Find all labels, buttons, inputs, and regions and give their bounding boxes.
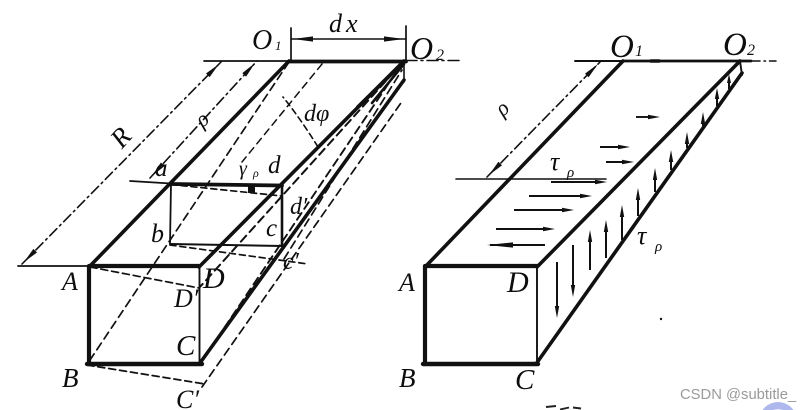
svg-text:D: D (506, 266, 529, 299)
labels left figure (60, 9, 444, 410)
tau arrow row 2 (600, 145, 630, 149)
deformed element line a-d' dashed (171, 185, 282, 197)
dimension tick at O2 (405, 26, 407, 61)
svg-text:B: B (399, 363, 416, 393)
thin horizontal line through top face (456, 178, 606, 180)
svg-text:ρ: ρ (654, 239, 662, 255)
face arrow v1 down (555, 262, 559, 318)
svg-text:A: A (397, 268, 415, 297)
deformed front top edge A-D' dashed (90, 267, 199, 288)
small tick on top line (651, 59, 659, 63)
deformed line c'-O2 dashed (284, 70, 402, 259)
deformed element line b-c' dashed (170, 245, 308, 264)
svg-text:ρ: ρ (489, 95, 514, 121)
thin line left of a (130, 181, 171, 184)
svg-text:2: 2 (747, 42, 755, 59)
face arrow v5 up (620, 205, 624, 240)
element edge d-c (281, 186, 284, 245)
tau arrow row 6 (514, 208, 574, 212)
svg-text:dφ: dφ (304, 101, 329, 127)
svg-text:dx: dx (329, 9, 362, 38)
element edge a-b (170, 184, 171, 244)
svg-text:O: O (723, 27, 747, 63)
tau arrow row 3 (606, 160, 634, 164)
axis dash-dot right of O2 (right fig) (751, 60, 776, 62)
edge B-C (87, 362, 202, 366)
tau arrow row 7 (496, 227, 555, 231)
top edge O1-O2 (289, 60, 406, 64)
svg-text:ρ: ρ (566, 165, 574, 181)
svg-text:C: C (176, 330, 196, 362)
edge D-O2 (199, 61, 404, 267)
cropped caption marks bottom center (546, 406, 581, 410)
right end closing segment (right fig) (740, 61, 742, 75)
hidden edge O2-C dashed through c (200, 62, 403, 364)
hidden edge O1-B dashed (88, 62, 289, 363)
rho arrow SW (152, 163, 165, 177)
hidden dashed line near d-phi fan (242, 64, 322, 162)
edge A-D (right fig) (426, 264, 537, 268)
rho dimension dash-dot (right fig) (487, 62, 600, 177)
face arrow v10 up (701, 112, 705, 126)
svg-text:D′: D′ (173, 284, 199, 313)
thin line left of A (18, 265, 90, 267)
R dimension dash-dot line (22, 62, 221, 264)
svg-text:R: R (103, 121, 137, 154)
edge B-C (right fig) (423, 362, 538, 366)
stray ink dot (660, 318, 662, 320)
svg-text:1: 1 (275, 38, 282, 53)
svg-text:d′: d′ (290, 194, 308, 220)
edge A-D (90, 264, 199, 268)
svg-text:b: b (151, 219, 164, 248)
bottom long edge C-E (right fig) (536, 73, 742, 364)
edge D-C (199, 267, 201, 364)
svg-text:γ: γ (239, 158, 248, 180)
R arrow SW (24, 249, 37, 262)
deformed bottom long edge C'-far dashed (202, 100, 403, 387)
svg-text:c: c (266, 215, 277, 242)
edge A-O1 (right fig) (426, 61, 623, 266)
axis line left of O1 (right fig) (575, 60, 623, 62)
svg-text:D: D (202, 262, 225, 295)
face arrow v12 up (727, 74, 731, 89)
R arrow NE (206, 64, 219, 77)
rho dimension dash-dot line (150, 61, 257, 178)
deformed bottom front edge B-C' dashed (87, 365, 205, 384)
edge D-C (right fig) (536, 267, 538, 364)
element edge a-d (171, 184, 282, 186)
bottom long edge C-E (200, 80, 404, 363)
rho arrow SW (right fig) (489, 162, 502, 175)
svg-text:τ: τ (637, 221, 648, 250)
edge D-O2 (right fig) (537, 61, 740, 267)
face arrow v7 up (653, 168, 657, 192)
dx arrow left (293, 36, 313, 41)
svg-text:A: A (60, 267, 78, 296)
face arrow v4 up (604, 220, 608, 258)
edge A-B (right fig) (423, 266, 427, 364)
edge A-O1 (90, 61, 289, 266)
watermark blue circle (759, 402, 797, 410)
svg-text:C: C (515, 364, 535, 396)
edge A-B (87, 266, 91, 364)
right end closing segment (403, 62, 405, 82)
rho arrow NE (right fig) (585, 64, 598, 77)
svg-text:C′: C′ (176, 385, 199, 410)
deformed edge O2-D' dashed through d' (199, 62, 403, 288)
svg-text:1: 1 (635, 43, 643, 60)
svg-text:ρ: ρ (252, 166, 259, 180)
svg-text:O: O (410, 30, 433, 66)
svg-text:O: O (252, 25, 272, 56)
face arrow v9 up (685, 132, 689, 148)
tau arrow row 4 (551, 180, 607, 184)
right angle marker gamma (248, 186, 255, 194)
dx arrow right (384, 36, 404, 41)
tau arrow row 1 (636, 115, 660, 119)
svg-text:τ: τ (550, 147, 561, 176)
arrowheads left figure (24, 36, 404, 262)
face arrow v8 up (669, 150, 673, 170)
svg-text:d: d (268, 152, 281, 179)
dimension tick at O1 (290, 28, 292, 61)
dark wedge at O2 apex (358, 62, 404, 108)
tau arrow row 5 (529, 194, 592, 198)
top edge O1-O2 (right fig) (623, 60, 751, 63)
labels right figure (397, 27, 755, 396)
axis dash-dot right of O2 (406, 60, 462, 62)
face arrow v3 up (588, 230, 592, 270)
svg-text:B: B (62, 363, 79, 393)
d-phi angle arc dashed (283, 97, 318, 147)
svg-text:ρ: ρ (189, 106, 214, 133)
svg-text:c′: c′ (283, 249, 300, 275)
element edge b-c (170, 244, 282, 246)
face arrow v2 down (571, 245, 575, 297)
axis line left of O1 (204, 60, 289, 62)
face arrow v11 up (715, 88, 719, 106)
dimension line dx (291, 38, 406, 40)
rho arrow NE (242, 63, 255, 77)
svg-text:2: 2 (436, 47, 444, 64)
svg-text:O: O (610, 29, 634, 65)
svg-text:a: a (155, 155, 168, 182)
svg-text:CSDN @subtitle_: CSDN @subtitle_ (680, 387, 797, 403)
tau arrow row 8 pointing left (487, 242, 545, 247)
arrowheads + stress arrows right figure (487, 64, 731, 318)
face arrow v6 up (636, 188, 640, 216)
